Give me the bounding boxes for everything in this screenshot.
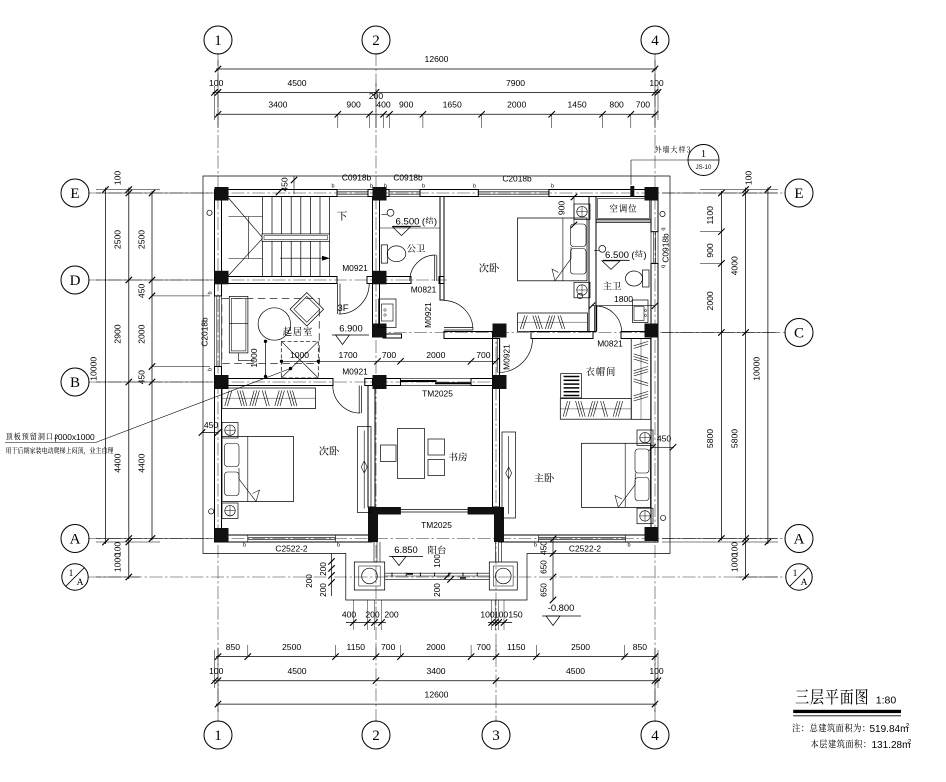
rain pipes: [207, 210, 666, 520]
dim 450 bedroom3: [199, 420, 221, 436]
svg-text:1450: 1450: [568, 100, 587, 110]
label living room: [283, 327, 312, 336]
svg-text:M0921: M0921: [502, 344, 512, 370]
svg-text:2000: 2000: [507, 100, 526, 110]
interior wall C: [383, 332, 651, 339]
ceiling opening note text: [5, 432, 113, 455]
svg-text:6.500: 6.500: [605, 250, 629, 261]
label TM2025 study south: [421, 520, 452, 530]
toilet bath1: [381, 245, 406, 263]
svg-text:4400: 4400: [113, 453, 123, 472]
svg-text:200: 200: [384, 610, 399, 620]
label AC position: [610, 204, 637, 213]
label TM2025 study north: [422, 389, 453, 399]
exterior wall bottom: [215, 535, 659, 542]
door M0821 masterbath: [595, 306, 622, 332]
svg-text:b: b: [473, 184, 476, 190]
interior wall col3 master west: [493, 339, 500, 508]
svg-text:450: 450: [657, 434, 672, 444]
svg-text:M0821: M0821: [411, 285, 437, 295]
label M0921 bedroom3: [342, 367, 368, 377]
svg-text:E: E: [794, 186, 803, 202]
dim 450 master: [649, 434, 676, 451]
window C2522-2 bottom-right: [539, 535, 626, 542]
bed bedroom2: [518, 218, 588, 281]
svg-text:2: 2: [372, 33, 380, 49]
svg-text:C0918b: C0918b: [393, 173, 423, 183]
svg-text:150: 150: [508, 610, 523, 620]
svg-text:1650: 1650: [443, 100, 462, 110]
svg-text:C2522-2: C2522-2: [569, 544, 601, 554]
staircase: [229, 197, 331, 277]
svg-text:700: 700: [382, 350, 397, 360]
svg-text:4: 4: [651, 33, 659, 49]
svg-text:200: 200: [319, 562, 328, 576]
svg-text:10000: 10000: [752, 357, 762, 381]
label masterbath: [603, 282, 621, 290]
dim 900 bedroom2: [557, 194, 578, 228]
svg-text:100: 100: [209, 666, 224, 676]
svg-text:100: 100: [113, 171, 123, 186]
balcony right vertical dims: [540, 536, 557, 603]
window C2522-2 bottom-left: [248, 535, 336, 542]
nightstand bedroom3 south: [222, 503, 238, 519]
svg-text:1100: 1100: [705, 206, 715, 225]
svg-text:850: 850: [633, 642, 648, 652]
door M0921 living room: [338, 284, 370, 315]
svg-text:): ): [643, 250, 646, 261]
svg-text:5800: 5800: [705, 429, 715, 448]
vanity basin nook: [379, 299, 397, 328]
interior wall bath east col: [440, 197, 444, 301]
ceiling dashed rect living room: [222, 299, 319, 364]
svg-text:6.900: 6.900: [339, 323, 362, 334]
svg-text:4400: 4400: [136, 453, 146, 472]
label bedroom2: [479, 263, 499, 273]
label bedroom3: [319, 446, 339, 456]
level mark -0.800: [542, 602, 581, 626]
svg-text:3: 3: [492, 728, 500, 744]
sliding panel west of study: [358, 427, 372, 513]
svg-text:100: 100: [480, 610, 495, 620]
svg-text:1150: 1150: [347, 642, 366, 652]
interior wall col2: [373, 197, 380, 338]
svg-text:650: 650: [540, 560, 549, 574]
label M0921 bedroom2: [423, 302, 433, 328]
title third floor plan 1:80: [793, 689, 901, 716]
svg-text:b: b: [384, 184, 387, 190]
interior wall bedroom2/masterbath: [589, 197, 596, 332]
svg-text:450: 450: [540, 541, 549, 555]
svg-text:2500: 2500: [113, 230, 123, 249]
leader line to ceiling note: [96, 367, 293, 443]
label Xia (down): [337, 211, 347, 220]
level mark 6.850 + balcony label: [389, 544, 446, 566]
exterior wall right: [651, 197, 658, 536]
svg-text:12600: 12600: [425, 54, 449, 64]
left dimension chains: [89, 171, 213, 581]
svg-text:2500: 2500: [571, 642, 590, 652]
svg-text:2: 2: [906, 723, 910, 730]
balcony columns: [354, 562, 517, 590]
svg-text:C0918b: C0918b: [661, 233, 671, 263]
study north door TM2025: [401, 379, 472, 386]
svg-text:2500: 2500: [136, 230, 146, 249]
study south door TM2025: [401, 507, 469, 515]
svg-text:1800: 1800: [614, 294, 633, 304]
svg-text:1000: 1000: [249, 348, 259, 367]
wardrobe bedroom2: [518, 313, 588, 332]
svg-text:1000: 1000: [290, 350, 309, 360]
svg-text:900: 900: [346, 100, 361, 110]
svg-text:M0821: M0821: [597, 339, 623, 349]
svg-text:b: b: [243, 543, 246, 549]
label M0921 living: [342, 263, 368, 273]
svg-text:850: 850: [226, 642, 241, 652]
door M0821 bath1: [410, 255, 437, 281]
svg-text:M0921: M0921: [342, 263, 368, 273]
svg-text:b: b: [337, 543, 340, 549]
svg-text:3400: 3400: [268, 100, 287, 110]
svg-text:b: b: [422, 184, 425, 190]
note total area: [792, 723, 911, 751]
svg-text:7900: 7900: [506, 78, 525, 88]
study table and chairs: [381, 429, 445, 479]
grid bubbles bottom 1 2 3 4: [204, 721, 669, 749]
label C0918b: [393, 173, 423, 183]
svg-text:C2522-2: C2522-2: [275, 544, 307, 554]
svg-text:1: 1: [214, 728, 222, 744]
nightstand bedroom3 north: [222, 423, 238, 439]
nightstand master south: [637, 508, 653, 524]
AC room inner outline: [598, 199, 650, 219]
svg-text:100: 100: [113, 542, 123, 557]
svg-text:-0.800: -0.800: [548, 602, 575, 613]
window C0918b right: [651, 232, 658, 264]
label C2522-2 left: [275, 544, 307, 554]
sofa: [229, 296, 254, 360]
svg-text:b: b: [208, 368, 214, 371]
svg-text:ⳁ000x1000: ⳁ000x1000: [54, 432, 95, 442]
svg-text:100: 100: [494, 610, 509, 620]
round table: [258, 308, 290, 340]
svg-text:1: 1: [69, 569, 74, 579]
svg-text:450: 450: [136, 284, 146, 299]
svg-text:200: 200: [433, 583, 442, 597]
window C0918b top-2: [389, 190, 420, 197]
top dimension chains: [209, 54, 664, 195]
window C0918b top-1: [337, 190, 368, 197]
svg-text:3400: 3400: [426, 666, 445, 676]
svg-text:E: E: [70, 186, 79, 202]
window C2018b left: [215, 296, 222, 367]
svg-text:D: D: [70, 273, 81, 289]
svg-text:6.850: 6.850: [394, 544, 417, 555]
structural columns: [215, 187, 659, 542]
svg-text:100: 100: [729, 542, 739, 557]
door M0921 bedroom3: [333, 386, 362, 414]
svg-text:b: b: [660, 227, 666, 230]
svg-text:700: 700: [476, 642, 491, 652]
door M0921 master: [497, 339, 532, 373]
svg-text:M0921: M0921: [342, 367, 368, 377]
svg-text:131.28m: 131.28m: [872, 740, 911, 751]
svg-text:2000: 2000: [426, 642, 445, 652]
svg-text:400: 400: [376, 100, 391, 110]
label 1800 + dim: [589, 294, 658, 309]
svg-text:A: A: [794, 532, 805, 548]
svg-text:2000: 2000: [426, 350, 445, 360]
svg-text:b: b: [660, 265, 666, 268]
svg-text:200: 200: [305, 574, 314, 588]
svg-text:): ): [434, 217, 437, 228]
svg-text:2: 2: [372, 728, 380, 744]
interior dimension row: [249, 340, 499, 379]
svg-text:A: A: [77, 578, 84, 588]
svg-text:TM2025: TM2025: [422, 389, 453, 399]
nightstand master north: [637, 430, 653, 446]
label C2522-2 right: [569, 544, 601, 554]
svg-text:100: 100: [744, 171, 754, 186]
label C2018b left: [200, 317, 210, 347]
svg-text:M0921: M0921: [423, 302, 433, 328]
wardrobe cloakroom south: [560, 399, 631, 420]
svg-text:B: B: [70, 375, 80, 391]
svg-text:1150: 1150: [507, 642, 526, 652]
ceiling opening 1000x1000 dashed: [281, 341, 318, 378]
grid axis lines: [88, 53, 786, 722]
right dimension chains: [662, 171, 778, 581]
interior wall B: [222, 379, 493, 386]
balcony black walls / study south wall: [368, 507, 504, 542]
label M0821 bath1: [411, 285, 437, 295]
svg-text:100: 100: [209, 78, 224, 88]
label study: [449, 452, 467, 461]
label cloakroom: [586, 367, 615, 376]
svg-text:2500: 2500: [282, 642, 301, 652]
toilet masterbath: [626, 270, 650, 287]
vanity masterbath: [633, 300, 649, 323]
svg-text:900: 900: [557, 201, 567, 216]
svg-text:200: 200: [319, 583, 328, 597]
svg-text:6.500: 6.500: [395, 217, 419, 228]
label 3F: [337, 303, 348, 314]
exterior wall detail callout: [630, 145, 719, 197]
svg-text:A: A: [801, 578, 808, 588]
label M0921 master: [502, 344, 512, 370]
svg-text:519.84m: 519.84m: [870, 724, 909, 735]
balcony railing: [385, 573, 490, 580]
svg-text:C: C: [794, 326, 804, 342]
label C0918b right: [661, 233, 671, 263]
dims below balcony left: [342, 600, 399, 630]
svg-text:C2018b: C2018b: [200, 317, 210, 347]
balcony side rails: [374, 542, 502, 562]
svg-text:1: 1: [701, 149, 706, 160]
svg-text:100: 100: [649, 666, 664, 676]
bed master: [582, 443, 651, 507]
svg-text:400: 400: [342, 610, 357, 620]
svg-text:b: b: [370, 184, 373, 190]
svg-text:10000: 10000: [89, 357, 99, 381]
svg-text:A: A: [70, 532, 81, 548]
svg-text:TM2025: TM2025: [421, 520, 452, 530]
svg-text:1:80: 1:80: [876, 695, 897, 707]
svg-text:2: 2: [908, 739, 912, 746]
svg-text:900: 900: [399, 100, 414, 110]
level mark 6.500 masterbath: [594, 246, 647, 270]
svg-text:JS-10: JS-10: [696, 165, 712, 171]
svg-text:700: 700: [636, 100, 651, 110]
svg-text:2900: 2900: [113, 324, 123, 343]
svg-text:700: 700: [381, 642, 396, 652]
svg-text:12600: 12600: [425, 690, 449, 700]
svg-text:450: 450: [204, 420, 219, 430]
balcony left vertical dims 200: [305, 554, 335, 597]
svg-text:100: 100: [433, 554, 442, 568]
sliding panel east of study: [502, 432, 516, 518]
svg-text:3F: 3F: [337, 303, 348, 314]
svg-text:800: 800: [609, 100, 624, 110]
svg-text:900: 900: [705, 243, 715, 258]
wardrobe cloakroom east: [631, 339, 651, 420]
label C2018b: [502, 174, 532, 184]
svg-text:1: 1: [214, 33, 222, 49]
balcony small dims 100/200: [433, 554, 454, 597]
svg-text:700: 700: [476, 350, 491, 360]
label C0918b: [342, 173, 372, 183]
svg-text:b: b: [534, 543, 537, 549]
exterior wall top: [215, 190, 659, 197]
svg-text:b: b: [331, 184, 334, 190]
svg-text:b: b: [627, 543, 630, 549]
grid bubbles right E C A 1/A: [785, 179, 813, 590]
svg-text:C2018b: C2018b: [502, 174, 532, 184]
door M0921 bedroom2: [444, 301, 473, 331]
exterior wall left: [215, 197, 222, 543]
bed bedroom3: [222, 437, 294, 502]
label M0821 masterbath: [597, 339, 623, 349]
svg-text:4000: 4000: [729, 256, 739, 275]
svg-text:4500: 4500: [287, 666, 306, 676]
svg-text:5800: 5800: [729, 429, 739, 448]
svg-text:1: 1: [793, 569, 798, 579]
grid bubbles top 1 2 4: [204, 26, 669, 54]
svg-text:2000: 2000: [136, 324, 146, 343]
interior wall D stairs/living: [222, 277, 373, 284]
grid bubbles left E D B A 1/A: [61, 179, 89, 590]
nightstand bedroom2 south: [574, 282, 590, 298]
svg-text:C0918b: C0918b: [342, 173, 372, 183]
svg-text:4: 4: [651, 728, 659, 744]
svg-text:650: 650: [540, 583, 549, 597]
svg-text:4500: 4500: [287, 78, 306, 88]
level mark 6.500 bath1: [380, 209, 440, 235]
svg-text:100: 100: [649, 78, 664, 88]
wardrobe bedroom3: [222, 388, 316, 409]
nightstand bedroom2 north: [574, 204, 590, 220]
interior wall D bath south: [380, 277, 445, 284]
chest cloakroom: [561, 374, 582, 398]
interior wall bedroom3/study: [368, 386, 375, 508]
level mark 6.900: [332, 323, 369, 345]
label bath1: [407, 244, 425, 252]
label master bedroom: [534, 473, 554, 483]
roof overhang outline: [203, 176, 670, 600]
dims below balcony right steps: [480, 600, 523, 630]
svg-text:b: b: [208, 291, 214, 294]
corner table diamond: [290, 293, 324, 326]
svg-text:4500: 4500: [566, 666, 585, 676]
interior wall AC south: [596, 220, 651, 222]
svg-text:2000: 2000: [705, 291, 715, 310]
bottom dimension chains: [209, 642, 664, 712]
window C2018b top: [478, 190, 549, 197]
svg-text:b: b: [551, 184, 554, 190]
window jamb marks: [208, 184, 666, 549]
svg-text:1700: 1700: [338, 350, 357, 360]
